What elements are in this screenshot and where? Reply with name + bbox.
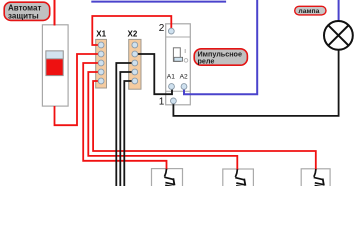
wire: relay pin 1 to lamp bottom: [173, 51, 338, 116]
relay terminal A1: [169, 84, 175, 90]
wire: terminal X2.4 down to load return: [120, 72, 132, 186]
svg-text:лампа: лампа: [298, 8, 319, 15]
wire: breaker output to terminal X1.2: [55, 54, 99, 125]
label: Импульсное реле: [194, 49, 247, 66]
push-button SB1 contact symbol: [164, 169, 174, 187]
relay terminal pin 2: [168, 28, 174, 34]
label: лампа: [295, 6, 326, 15]
label: Автомат защиты: [4, 2, 50, 20]
svg-text:1: 1: [159, 97, 165, 108]
terminal strip X2 body: [129, 39, 141, 89]
terminal circles X2: [132, 42, 138, 84]
push-button SB3 contact symbol: [314, 169, 324, 187]
svg-text:защиты: защиты: [8, 11, 39, 20]
svg-text:A1: A1: [167, 74, 175, 81]
wire: terminal X1.4 to push-button SB2: [88, 72, 237, 170]
svg-text:A2: A2: [180, 74, 188, 81]
wire: terminal X1.1 to relay pin 2: [92, 16, 171, 45]
wire: neutral rail at top: [91, 1, 226, 3]
wire: terminal X2.3 down to load return: [116, 63, 132, 186]
terminal strip X1 body: [96, 39, 107, 88]
wire: relay A2 to neutral riser: [184, 0, 257, 94]
svg-text:2: 2: [159, 23, 165, 34]
circuit breaker body: [42, 25, 68, 106]
svg-text:реле: реле: [198, 57, 215, 66]
wire: terminal X1.3 to push-button SB1: [83, 63, 166, 170]
wire: terminal X2.5 down to load return: [124, 81, 132, 186]
svg-text:X1: X1: [96, 30, 106, 39]
svg-text:X2: X2: [128, 30, 138, 39]
lamp: [324, 21, 353, 50]
wire: terminal X1.5 to push-button SB3: [93, 81, 316, 170]
relay terminal pin 1: [171, 98, 177, 104]
impulse relay body: [166, 24, 191, 105]
push-button SB3 box: [301, 169, 330, 189]
wire: supply phase into breaker: [54, 0, 56, 26]
push-button SB2 contact symbol: [235, 169, 245, 187]
push-button SB1 box: [152, 169, 183, 189]
wire: neutral drop to lamp: [338, 0, 340, 20]
push-button SB2 box: [223, 169, 254, 189]
relay terminal A2: [181, 84, 187, 90]
wire: terminal X2.2 to relay A1: [132, 54, 172, 94]
terminal circles X1: [98, 42, 104, 84]
